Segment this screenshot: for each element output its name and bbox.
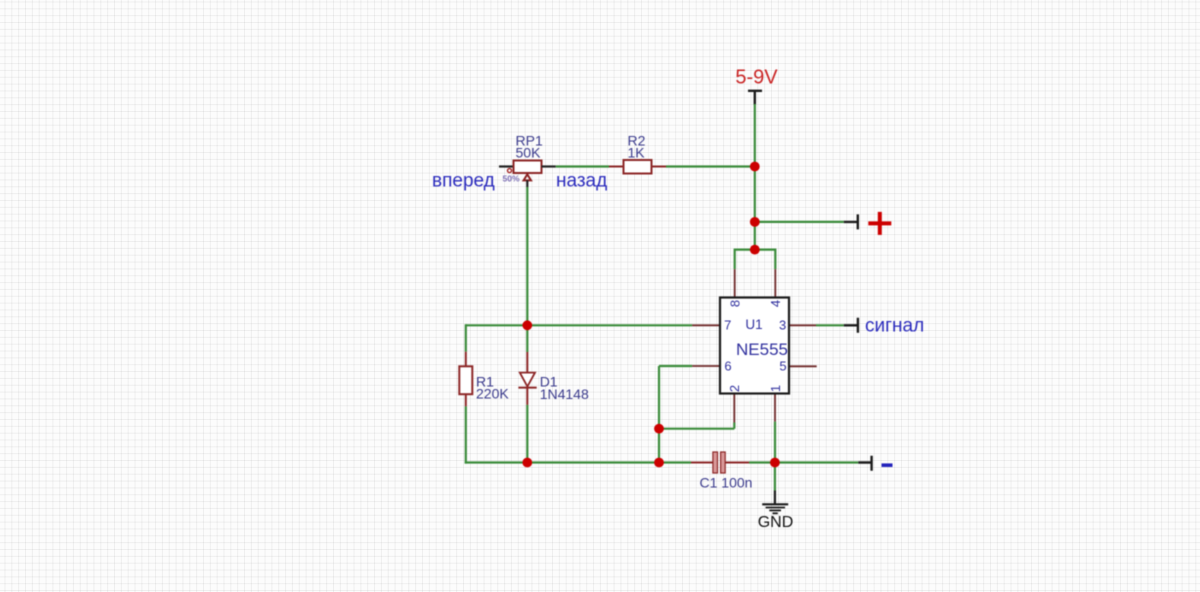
- svg-text:7: 7: [724, 317, 731, 332]
- svg-text:4: 4: [768, 300, 783, 307]
- wire C1 to GND node: [749, 461, 775, 463]
- minus symbol: [882, 463, 893, 467]
- R1 top lead: [465, 352, 467, 367]
- svg-text:назад: назад: [556, 170, 607, 191]
- svg-text:1N4148: 1N4148: [540, 386, 589, 402]
- C1 right lead: [725, 462, 749, 464]
- wire R1 bottom: [465, 406, 467, 463]
- junction pin6 branch/bottom: [654, 458, 664, 468]
- wire loop horizontal: [735, 249, 776, 251]
- wire GND drop: [774, 463, 776, 491]
- wire to R1 top: [465, 324, 467, 352]
- pin 8 stub: [734, 269, 736, 297]
- svg-text:сигнал: сигнал: [865, 316, 924, 337]
- RP1 unconnected pin circle: [508, 169, 512, 173]
- svg-text:2: 2: [727, 385, 742, 392]
- wire pin1 down: [774, 422, 776, 463]
- wire RP1 to R2: [556, 165, 609, 167]
- ground bar 2: [766, 507, 785, 509]
- pin 3 stub: [789, 324, 816, 326]
- svg-text:6: 6: [724, 359, 731, 374]
- svg-text:1K: 1K: [628, 145, 646, 161]
- junction rail/R2: [750, 162, 760, 172]
- pin 4 stub: [774, 269, 776, 297]
- wire plus branch: [755, 221, 844, 223]
- C1 right plate: [721, 452, 726, 473]
- svg-text:8: 8: [728, 300, 743, 307]
- svg-text:5: 5: [779, 359, 786, 374]
- svg-text:вперед: вперед: [432, 170, 495, 191]
- power flag VCC: [735, 67, 778, 105]
- wire pin7 horizontal: [466, 324, 692, 326]
- RP1 wiper lead pin 3: [526, 180, 528, 187]
- wire pin2 down: [733, 423, 735, 429]
- potentiometer RP1: [499, 133, 556, 187]
- svg-text:NE555: NE555: [736, 340, 788, 359]
- ic U1 NE555: [692, 269, 817, 422]
- R1 bottom lead: [465, 394, 467, 406]
- wire wiper down: [526, 187, 528, 325]
- svg-text:U1: U1: [745, 317, 762, 332]
- junction wiper/pin7: [522, 320, 532, 330]
- wire R2 to rail: [666, 165, 755, 167]
- junction pin2/pin6: [654, 424, 664, 434]
- wire pin3 green: [816, 324, 844, 326]
- wire pin2 horizontal: [659, 428, 734, 430]
- wire pin6 vertical: [658, 366, 660, 463]
- svg-text:1: 1: [768, 385, 783, 392]
- resistor R2: [609, 133, 666, 174]
- wire power vertical: [754, 104, 756, 250]
- capacitor C1: [691, 452, 752, 490]
- svg-text:C1 100n: C1 100n: [700, 474, 753, 490]
- power bar symbol: [748, 91, 762, 105]
- plus symbol: [868, 212, 891, 235]
- C1 left lead: [691, 462, 713, 464]
- R1 body: [459, 366, 472, 394]
- pin 7 stub: [692, 324, 720, 326]
- junction D1/bottom: [522, 458, 532, 468]
- RP1 left lead pin 1: [499, 165, 514, 167]
- U1 body: [720, 298, 789, 394]
- wire GND node to minus: [775, 461, 858, 463]
- RP1 wiper stub: [526, 173, 528, 176]
- terminal pin signal: [844, 318, 858, 333]
- wire pin6 horizontal: [659, 365, 692, 367]
- wire loop left vertical: [734, 249, 736, 270]
- ground bar 3: [769, 509, 781, 511]
- svg-text:5-9V: 5-9V: [735, 67, 778, 89]
- RP1 right lead pin 2: [542, 165, 556, 167]
- ground bar 4: [773, 512, 778, 514]
- RP1 body: [514, 161, 542, 174]
- pin 5 stub: [789, 365, 817, 367]
- RP1 wiper arrow: [524, 174, 531, 180]
- R2 right lead: [652, 166, 667, 168]
- terminal pin minus: [858, 456, 871, 471]
- C1 left plate: [713, 452, 718, 473]
- R2 body: [624, 160, 652, 174]
- D1 cathode bar: [518, 387, 536, 389]
- ground: [758, 491, 794, 531]
- wire to D1 top: [526, 325, 528, 352]
- svg-text:3: 3: [779, 317, 786, 332]
- D1 top lead anode: [526, 352, 528, 372]
- svg-text:50K: 50K: [516, 145, 542, 161]
- R2 left lead: [609, 166, 624, 168]
- svg-text:50%: 50%: [503, 173, 520, 183]
- resistor R1: [459, 324, 509, 463]
- svg-text:GND: GND: [758, 514, 794, 531]
- pin 6 stub: [692, 365, 720, 367]
- pin 1 stub: [774, 394, 776, 422]
- svg-text:220K: 220K: [476, 386, 509, 402]
- wire D1 bottom: [526, 405, 528, 463]
- diode D1: [518, 325, 589, 462]
- pin 2 stub: [733, 394, 735, 423]
- ground stem: [774, 491, 776, 505]
- terminal pin plus: [844, 214, 858, 229]
- junction VCC loop: [750, 245, 760, 255]
- wire loop right vertical: [774, 249, 776, 270]
- D1 bottom lead: [526, 387, 528, 405]
- ground bar 1: [762, 503, 788, 505]
- junction GND node: [770, 458, 780, 468]
- junction plus branch: [750, 217, 760, 227]
- D1 triangle: [520, 373, 535, 387]
- wire bottom rail: [465, 461, 691, 463]
